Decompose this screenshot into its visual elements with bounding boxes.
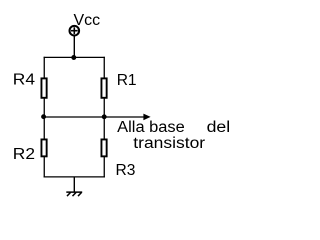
wire bottom horizontal bbox=[44, 176, 105, 178]
resistor R2 body bbox=[41, 139, 46, 156]
Vcc supply symbol (circle with plus) bbox=[70, 26, 80, 36]
wire left middle segment bbox=[43, 99, 45, 118]
junction dot middle left node bbox=[41, 114, 46, 119]
wire ground stem bbox=[73, 177, 75, 192]
wire right lower drop bbox=[103, 117, 105, 140]
svg-text:R3: R3 bbox=[116, 162, 136, 179]
resistor R1 body bbox=[101, 78, 106, 97]
wire middle horizontal to arrow bbox=[44, 116, 145, 118]
svg-text:R1: R1 bbox=[117, 72, 137, 89]
resistor R3 body bbox=[101, 139, 106, 156]
svg-text:del: del bbox=[207, 119, 231, 136]
junction dot middle right node bbox=[102, 114, 107, 119]
resistor R4 body bbox=[41, 78, 46, 97]
wire left top drop bbox=[43, 57, 45, 78]
wire right middle segment bbox=[103, 99, 105, 118]
arrowhead to base bbox=[143, 114, 150, 121]
wire Vcc stem bbox=[73, 36, 75, 57]
svg-text:R4: R4 bbox=[13, 72, 35, 89]
svg-text:transistor: transistor bbox=[133, 135, 205, 152]
wire right top drop bbox=[103, 57, 105, 78]
svg-text:Alla base: Alla base bbox=[117, 119, 185, 136]
ground symbol bbox=[66, 192, 82, 196]
wire left lower drop bbox=[43, 117, 45, 140]
wire left bottom segment bbox=[43, 157, 45, 178]
junction dot top node bbox=[71, 55, 76, 60]
wire top horizontal bbox=[44, 56, 105, 58]
wire right bottom segment bbox=[103, 157, 105, 178]
svg-text:R2: R2 bbox=[13, 146, 35, 163]
